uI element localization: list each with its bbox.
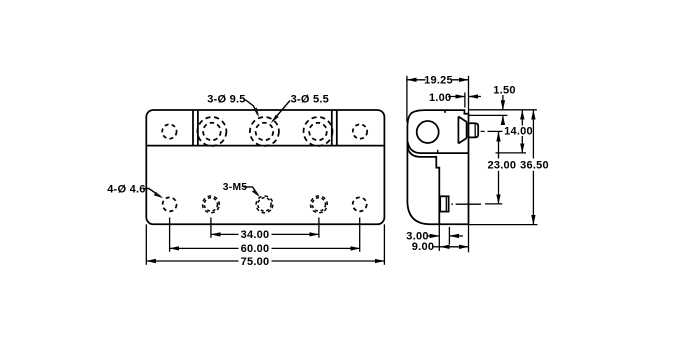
svg-text:3-M5: 3-M5 xyxy=(223,182,247,193)
svg-text:4-Ø 4.6: 4-Ø 4.6 xyxy=(107,183,145,195)
svg-text:3-Ø 9.5: 3-Ø 9.5 xyxy=(207,93,245,105)
svg-text:23.00: 23.00 xyxy=(488,160,517,172)
svg-text:1.00: 1.00 xyxy=(429,92,451,104)
svg-text:19.25: 19.25 xyxy=(424,75,453,87)
svg-text:36.50: 36.50 xyxy=(520,160,549,172)
svg-text:9.00: 9.00 xyxy=(412,241,434,253)
svg-text:14.00: 14.00 xyxy=(504,125,533,137)
svg-text:75.00: 75.00 xyxy=(241,256,270,268)
svg-text:60.00: 60.00 xyxy=(241,243,270,255)
svg-text:1.50: 1.50 xyxy=(493,84,515,96)
svg-text:34.00: 34.00 xyxy=(241,229,270,241)
svg-text:3-Ø 5.5: 3-Ø 5.5 xyxy=(291,93,329,105)
